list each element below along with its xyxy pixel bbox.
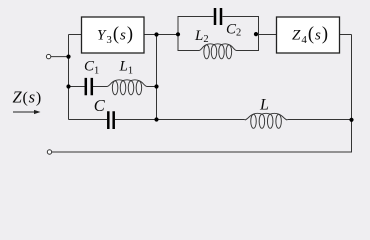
svg-text:L2: L2: [194, 28, 209, 45]
svg-text:L1: L1: [119, 59, 134, 77]
svg-text:Y3(s): Y3(s): [97, 25, 134, 46]
svg-text:Z(s): Z(s): [13, 88, 43, 107]
svg-text:Z4(s): Z4(s): [292, 25, 329, 46]
svg-text:C1: C1: [84, 59, 99, 77]
svg-text:C: C: [94, 96, 106, 115]
svg-text:L: L: [259, 96, 269, 113]
svg-text:C2: C2: [226, 22, 241, 39]
